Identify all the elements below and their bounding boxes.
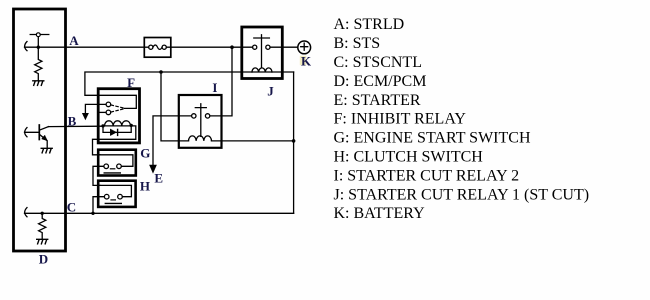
relay F coil — [103, 121, 131, 126]
wire J to battery — [282, 46, 297, 48]
wire A from ECM pin A to relay J — [25, 46, 242, 48]
svg-text:G: G — [140, 146, 150, 161]
ground under R1 — [33, 81, 44, 86]
arrow into node B — [82, 113, 88, 119]
wire feed down to relay I coil — [161, 72, 189, 141]
node A tap circle — [36, 33, 40, 37]
transistor Q1 base bar — [38, 125, 40, 140]
switch H contact circles — [104, 194, 109, 199]
switch G base line — [104, 172, 120, 174]
junction dot feed wire to relay I coil — [159, 70, 163, 74]
svg-text:F: INHIBIT RELAY: F: INHIBIT RELAY — [334, 111, 467, 128]
ground under Q1 emitter — [41, 148, 52, 153]
svg-text:G: ENGINE START SWITCH: G: ENGINE START SWITCH — [334, 130, 531, 147]
inhibit relay box F outline — [98, 89, 139, 143]
resistor R2 — [39, 213, 46, 239]
switch H base line — [105, 202, 121, 204]
transistor Q1 emitter — [39, 134, 47, 148]
clutch switch box H outline — [98, 181, 135, 207]
relay F coil junction dots — [101, 124, 104, 127]
transistor Q1 collector — [39, 127, 48, 131]
svg-text:H: H — [140, 179, 150, 194]
relay J coil — [252, 68, 272, 72]
switch H blade dash — [111, 199, 115, 201]
junction dot wire C at resistor R2 — [41, 212, 44, 215]
svg-text:A: STRLD: A: STRLD — [334, 16, 405, 33]
svg-text:E: STARTER: E: STARTER — [334, 92, 421, 109]
fuse element — [149, 45, 153, 49]
svg-text:J: J — [267, 84, 274, 99]
transistor Q1 emitter arrow — [42, 135, 48, 140]
starter cut relay 1 box J outline — [242, 27, 282, 79]
junction dot chain to wire C — [91, 212, 94, 215]
switch G feed wire inside — [98, 155, 133, 167]
relay F contact circles — [106, 102, 111, 107]
relay F coil out to switch chain — [93, 126, 136, 155]
connector pin arc C — [25, 208, 27, 217]
svg-text:C: STSCNTL: C: STSCNTL — [334, 54, 422, 71]
engine start switch box G outline — [98, 150, 136, 176]
wire relay F contact out to arrow at B — [85, 104, 106, 113]
relay F diode — [110, 129, 116, 135]
relay I actuator — [195, 104, 206, 137]
fuse box outline — [144, 38, 171, 58]
svg-text:H: CLUTCH SWITCH: H: CLUTCH SWITCH — [334, 149, 484, 166]
svg-text:D: ECM/PCM: D: ECM/PCM — [334, 73, 427, 90]
svg-text:K: K — [301, 54, 312, 69]
node A internal tap bar — [30, 35, 49, 48]
junction dot relay I coil to riser — [292, 139, 296, 143]
relay J contact circles — [253, 45, 257, 49]
yellow highlight behind label K — [300, 56, 307, 65]
relay F movable blade (dashed) — [111, 105, 124, 108]
relay I coil line right to riser — [212, 140, 294, 142]
connector pin arc A — [25, 42, 27, 51]
svg-text:I: STARTER CUT RELAY 2: I: STARTER CUT RELAY 2 — [334, 167, 520, 184]
junction dot on wire A above relay I — [230, 45, 234, 49]
relay I coil — [189, 136, 212, 141]
wire from junction A down to relay I contact — [210, 47, 232, 116]
battery K — [298, 41, 311, 54]
switch G blade dash — [110, 168, 114, 170]
svg-text:J: STARTER CUT RELAY 1 (ST CUT: J: STARTER CUT RELAY 1 (ST CUT) — [334, 186, 590, 203]
ECM/PCM box D — [14, 9, 66, 251]
starter cut relay 2 box I outline — [179, 95, 222, 148]
wire B from ECM to relay F coil — [49, 125, 104, 127]
wire switch H down to wire C — [93, 197, 104, 214]
switch G contact circles — [104, 164, 109, 169]
svg-text:A: A — [69, 33, 79, 48]
feed wire (relay J coil line) — [85, 72, 294, 108]
svg-text:K: BATTERY: K: BATTERY — [334, 205, 426, 222]
relay J actuator — [254, 35, 270, 68]
ground under R2 — [37, 239, 48, 244]
fuse lead stubs — [144, 46, 171, 48]
resistor R1 — [35, 47, 42, 81]
switch H feed wire inside — [98, 185, 131, 196]
wire relay I contact to starter arrow E — [153, 116, 191, 166]
svg-text:F: F — [127, 75, 135, 90]
wire C from ECM pin C to right riser — [25, 212, 294, 214]
svg-text:C: C — [67, 199, 76, 214]
junction on wire A at resistor R1 — [37, 46, 40, 49]
relay F diode loop — [103, 126, 131, 132]
wire switch G to switch H — [93, 166, 104, 185]
relay J contact stubs — [243, 46, 281, 48]
transistor Q1 base wire — [25, 131, 40, 133]
relay I contact circles — [192, 114, 196, 118]
svg-text:B: B — [68, 114, 77, 129]
right riser down to wire C — [293, 72, 295, 213]
relay F lower contact stub — [98, 111, 106, 113]
svg-text:B: STS: B: STS — [334, 35, 381, 52]
svg-text:E: E — [154, 170, 163, 185]
svg-text:I: I — [212, 80, 217, 95]
svg-text:D: D — [39, 251, 48, 266]
connector pin arc B — [25, 128, 27, 137]
arrow E to starter — [150, 165, 157, 173]
